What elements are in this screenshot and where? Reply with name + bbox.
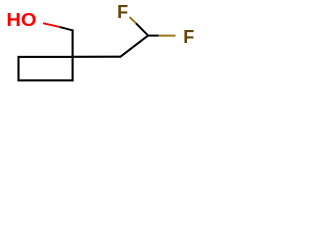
svg-text:HO: HO bbox=[6, 10, 36, 30]
bond C1-C2 vertical bbox=[72, 29, 74, 57]
cyclobutane ring bbox=[19, 57, 73, 81]
bond C2-C3 horizontal bbox=[73, 56, 121, 58]
bond O-C1 black half bbox=[60, 27, 72, 30]
svg-text:F: F bbox=[117, 2, 128, 22]
bond C4-F2 black part bbox=[148, 35, 159, 37]
bond C4-F2 gold part bbox=[159, 35, 176, 37]
bond C4-F1 black part bbox=[136, 23, 148, 35]
bond C4-F1 gold part bbox=[130, 17, 137, 23]
bond O-C1 red half bbox=[43, 23, 60, 27]
atom label HO (hydroxyl oxygen) bbox=[6, 10, 36, 30]
svg-text:F: F bbox=[183, 27, 194, 47]
atom label F2 bbox=[183, 27, 194, 47]
atom label F1 bbox=[117, 2, 128, 22]
bond C3-C4 diagonal bbox=[120, 35, 148, 57]
